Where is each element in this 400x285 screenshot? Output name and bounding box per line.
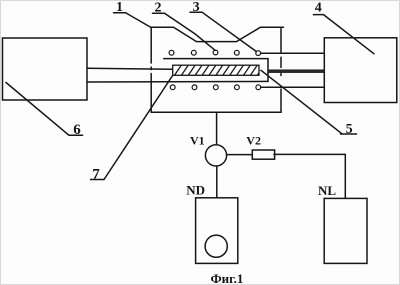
- svg-text:5: 5: [346, 122, 353, 137]
- svg-text:NL: NL: [318, 183, 336, 198]
- svg-text:1: 1: [116, 0, 123, 15]
- svg-text:2: 2: [155, 1, 162, 16]
- svg-text:4: 4: [315, 1, 322, 16]
- svg-text:Фиг.1: Фиг.1: [211, 271, 244, 285]
- svg-text:7: 7: [92, 167, 100, 183]
- svg-text:6: 6: [73, 122, 81, 138]
- svg-text:V2: V2: [246, 134, 261, 148]
- svg-text:3: 3: [193, 0, 200, 15]
- svg-text:ND: ND: [186, 182, 205, 197]
- svg-text:V1: V1: [190, 134, 205, 148]
